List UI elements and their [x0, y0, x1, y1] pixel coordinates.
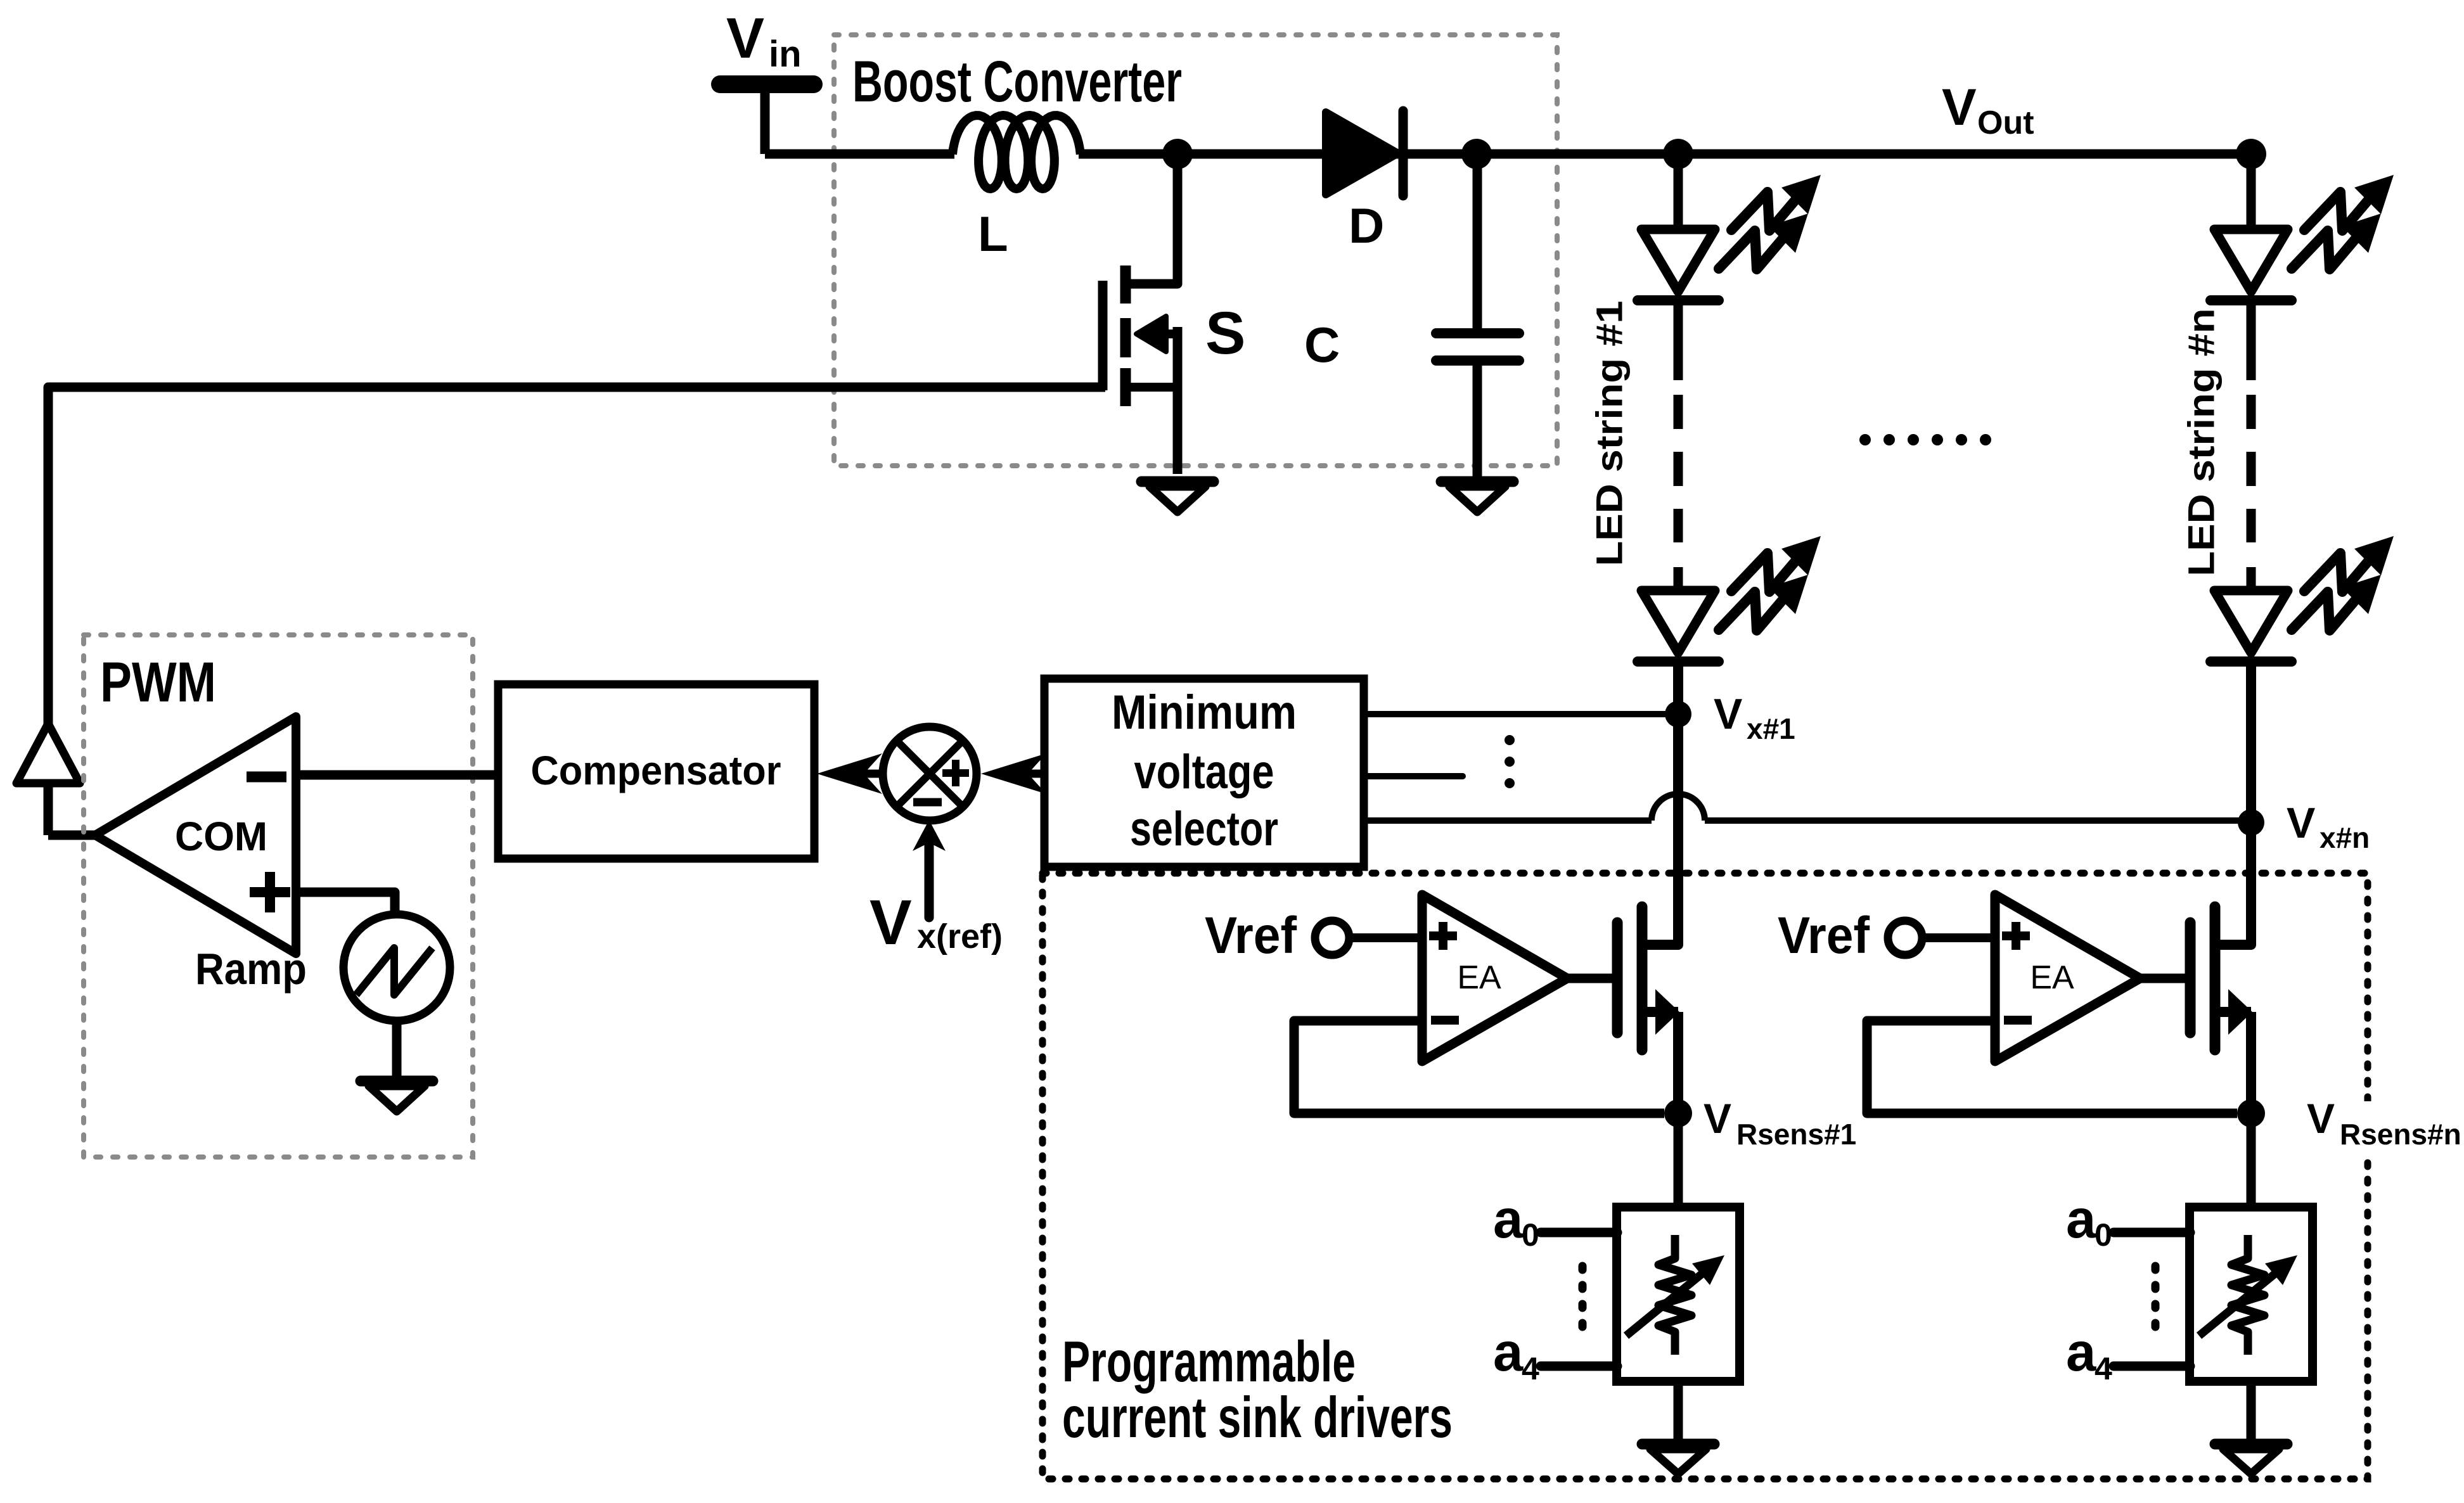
svg-text:selector: selector [1130, 802, 1278, 856]
label Vxref [869, 887, 1003, 958]
op-amp EA [1422, 895, 1567, 1061]
svg-text:Ramp: Ramp [195, 944, 307, 994]
svg-text:V: V [1714, 690, 1742, 738]
svg-text:V: V [1942, 79, 1977, 136]
node switch junction [1162, 139, 1193, 169]
transistor S channel bar [1120, 265, 1131, 406]
wire EA output to gate [1564, 974, 1622, 983]
node Vout stringN tap [2236, 139, 2266, 169]
transistor S source contact bar [1126, 383, 1177, 392]
summing plus sign [942, 760, 969, 786]
node Vx#1 [1665, 701, 1691, 727]
LED light arrows D1 stringN [2292, 175, 2394, 269]
wire stringN top [2247, 154, 2256, 228]
wire main output bus Vin to LED strings [765, 150, 954, 159]
svg-text:LED string #n: LED string #n [2181, 309, 2223, 577]
wire selector input 1 [1364, 711, 1678, 717]
arrow signal direction up [16, 724, 80, 783]
svg-text:S: S [1205, 300, 1245, 367]
inductor L [953, 115, 1081, 189]
svg-text:D: D [1349, 198, 1384, 253]
wire gate bus from PWM [48, 387, 1105, 835]
svg-text:a: a [1493, 1322, 1524, 1383]
EA plus sign [1429, 922, 1457, 950]
COM plus sign [250, 872, 290, 912]
wire string1 mid lower [1674, 567, 1683, 592]
svg-text:V: V [2287, 799, 2315, 847]
selector input dots [1505, 735, 1515, 788]
ground under C [1441, 482, 1513, 512]
COM minus sign [247, 772, 286, 783]
wire stringN mid lower [2247, 567, 2256, 592]
transistor M drain [1642, 666, 1678, 945]
svg-text:Out: Out [1977, 105, 2034, 141]
wire selector input n right [1705, 817, 2251, 824]
transistor M source with arrow [1642, 989, 1679, 1113]
Vin supply bar [720, 75, 814, 93]
PWM dashed box [84, 635, 473, 1157]
node Vx#n [2238, 809, 2264, 836]
wire ramp to COM plus [296, 892, 395, 917]
arrow into compensator [817, 753, 885, 794]
LED light arrows D2 string1 [1719, 536, 1821, 630]
wire main bus right of inductor [1079, 150, 2251, 159]
wire string1 top [1674, 154, 1683, 228]
svg-text:0: 0 [1522, 1217, 1539, 1253]
label a4 [1493, 1322, 1539, 1386]
svg-text:x#1: x#1 [1747, 712, 1795, 745]
label Vin [726, 7, 802, 75]
svg-text:V: V [1704, 1095, 1731, 1142]
minimum voltage selector box [1044, 679, 1364, 867]
transistor S drain wire [1123, 154, 1177, 284]
svg-text:x#n: x#n [2320, 821, 2370, 854]
wire stringN mid upper [2247, 299, 2256, 380]
svg-text:x(ref): x(ref) [917, 918, 1003, 956]
arrow selector into summing junction [981, 753, 1047, 794]
node diode cathode junction [1461, 139, 1492, 169]
diode D [1326, 111, 1403, 196]
svg-text:voltage: voltage [1134, 745, 1274, 799]
svg-text:L: L [978, 206, 1008, 262]
arrow Vxref into summing junction [913, 820, 946, 918]
wire Vin to main bus [760, 89, 770, 154]
compensator box [498, 684, 814, 859]
wire Vref to EA plus [1349, 933, 1425, 942]
svg-text:V: V [2307, 1095, 2335, 1142]
variable resistor [1626, 1235, 1724, 1355]
wire selector input n left [1364, 817, 1652, 824]
LED D2 stringN [2211, 591, 2292, 662]
Vref terminal [1315, 921, 1349, 955]
transistor M gate bar [1612, 923, 1623, 1033]
wire a4 [1541, 1362, 1617, 1371]
svg-text:EA: EA [1457, 959, 1501, 996]
label a0 [1493, 1189, 1539, 1253]
svg-text:in: in [769, 34, 802, 75]
capacitor C [1436, 154, 1519, 476]
dots a bus [1579, 1266, 1587, 1338]
svg-text:LED string #1: LED string #1 [1589, 301, 1631, 566]
svg-text:Compensator: Compensator [531, 748, 781, 793]
wire to programmable resistor [1674, 1113, 1683, 1207]
svg-text:C: C [1304, 317, 1340, 373]
label Minimum voltage selector [1112, 686, 1297, 856]
label Vx#1 [1714, 690, 1795, 745]
wire string1 mid upper [1674, 299, 1683, 380]
LED light arrows D1 string1 [1719, 175, 1821, 269]
wire hop over string1 [1652, 794, 1705, 821]
svg-text:Programmable: Programmable [1062, 1330, 1356, 1394]
transistor M channel bar [1637, 907, 1648, 1050]
programmable resistor box [1617, 1207, 1740, 1381]
wire selector input mid stub [1364, 773, 1463, 779]
svg-text:Boost Converter: Boost Converter [852, 49, 1182, 114]
LED D1 string1 [1638, 229, 1719, 300]
wire ramp to ground [392, 1021, 402, 1081]
wire a0 [1541, 1228, 1617, 1238]
dots between strings [1859, 434, 1991, 445]
label VRsens#n [2299, 1095, 2461, 1156]
current sink driver 1 [1205, 666, 1740, 1474]
transistor S source wire [1173, 327, 1183, 474]
svg-text:a: a [1493, 1189, 1524, 1250]
node Vout string1 tap [1663, 139, 1693, 169]
label Vx#n [2287, 799, 2370, 854]
wire compensator to COM minus [296, 771, 501, 780]
current sink driver n [1778, 666, 2313, 1474]
wire stringN dashed segment [2247, 395, 2256, 542]
svg-text:V: V [726, 7, 764, 70]
EA minus sign [1431, 1016, 1459, 1025]
svg-text:Rsens#n: Rsens#n [2340, 1118, 2461, 1151]
wire string1 dashed segment [1674, 395, 1683, 542]
summing minus sign [913, 798, 942, 807]
boost converter dashed box [834, 35, 1557, 466]
svg-text:Rsens#1: Rsens#1 [1736, 1118, 1856, 1151]
wire COM output [48, 831, 98, 840]
wire EA feedback [1294, 1021, 1664, 1113]
svg-text:Vref: Vref [1205, 907, 1297, 964]
ground under ramp [361, 1081, 433, 1111]
ground under driver [1642, 1444, 1714, 1474]
svg-text:Minimum: Minimum [1112, 686, 1297, 739]
svg-text:COM: COM [175, 814, 267, 859]
node VRsens [1664, 1099, 1692, 1127]
LED D1 stringN [2211, 229, 2292, 300]
transistor S gate bar [1098, 281, 1108, 390]
wire resistor to ground [1674, 1381, 1683, 1444]
LED D2 string1 [1638, 591, 1719, 662]
svg-text:V: V [869, 887, 912, 958]
ground under S [1141, 482, 1214, 512]
programmable current sink drivers dashed box [1043, 873, 2368, 1479]
label Programmable current sink drivers [1062, 1330, 1453, 1450]
label VOut [1942, 79, 2034, 141]
ramp generator [343, 914, 450, 1021]
svg-text:current sink drivers: current sink drivers [1062, 1386, 1453, 1450]
svg-text:PWM: PWM [100, 650, 216, 713]
LED light arrows D2 stringN [2292, 536, 2394, 630]
label VRsens#1 [1704, 1095, 1856, 1151]
transistor S body arrow [1136, 316, 1177, 352]
summing junction [883, 727, 977, 821]
comparator COM [95, 717, 296, 954]
